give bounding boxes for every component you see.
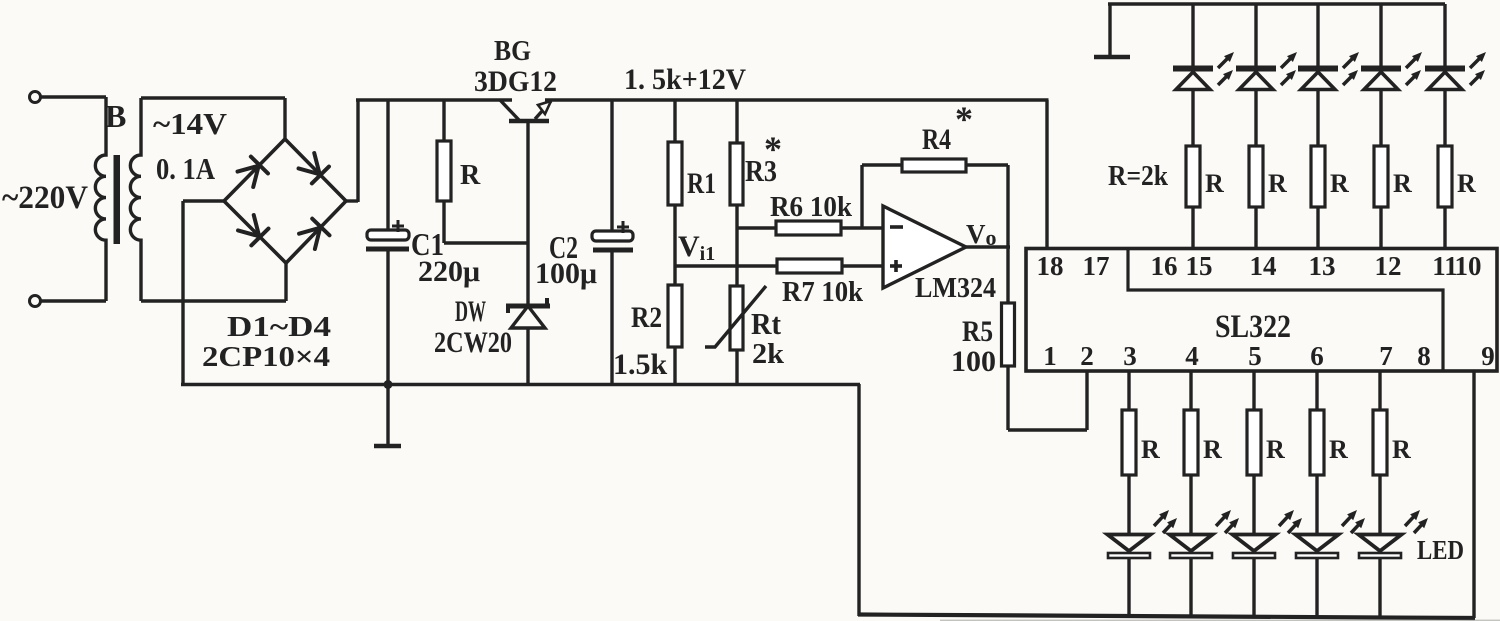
wire +12V rail to pin 18 bbox=[1045, 100, 1048, 247]
wire 220V bottom lead bbox=[41, 299, 106, 302]
wire secondary top to bridge bbox=[141, 98, 285, 141]
wire LED1 bottom column bbox=[1127, 371, 1130, 618]
wire R7 to non-inverting input bbox=[842, 264, 884, 267]
svg-text:1.5k: 1.5k bbox=[613, 348, 668, 381]
pin 17 label bbox=[1083, 251, 1110, 281]
label Vi1 bbox=[678, 230, 715, 265]
label ~14V bbox=[153, 106, 228, 141]
wire op-amp output bbox=[966, 245, 1010, 248]
svg-text:~220V: ~220V bbox=[2, 180, 88, 216]
svg-text:LM324: LM324 bbox=[915, 272, 996, 304]
resistor R (bottom 2) bbox=[1184, 410, 1198, 475]
wire bridge left corner to ground rail bbox=[183, 201, 224, 386]
svg-text:6: 6 bbox=[1310, 341, 1324, 371]
LED D5 (bottom bank) bbox=[1359, 535, 1402, 559]
LED D4 (top bank) bbox=[1361, 69, 1401, 90]
pin 15 label bbox=[1186, 251, 1213, 281]
wire top LED ground rail bbox=[1108, 2, 1445, 6]
svg-text:R2: R2 bbox=[631, 301, 662, 334]
svg-text:R6 10k: R6 10k bbox=[770, 192, 852, 223]
svg-text:3: 3 bbox=[1123, 341, 1137, 371]
wire LED5 top column bbox=[1443, 4, 1446, 248]
wire 220V top lead bbox=[41, 95, 106, 98]
pin 18 label bbox=[1037, 251, 1064, 281]
svg-text:D1~D4: D1~D4 bbox=[227, 311, 331, 343]
label R (bottom 4) bbox=[1329, 435, 1348, 464]
label 1.5k bbox=[613, 348, 668, 381]
label R3 bbox=[745, 129, 782, 188]
resistor R3 bbox=[730, 143, 743, 205]
label 100 bbox=[951, 345, 996, 378]
wire Vi1 node to R7 bbox=[675, 264, 777, 267]
wire LED4 bottom column bbox=[1315, 371, 1318, 618]
resistor R1 bbox=[668, 142, 682, 205]
svg-text:16: 16 bbox=[1151, 251, 1178, 281]
svg-text:R: R bbox=[1205, 169, 1224, 198]
pin 7 label bbox=[1379, 341, 1393, 371]
wire Vo to R5 bbox=[1006, 247, 1009, 303]
diode D2 (top-right) bbox=[298, 152, 329, 183]
transformer B core bbox=[114, 155, 121, 244]
label R (top 5) bbox=[1457, 169, 1476, 198]
terminal: 220V input bottom bbox=[30, 296, 41, 307]
svg-text:B: B bbox=[105, 98, 126, 134]
LED D4 arrows bbox=[1406, 52, 1422, 85]
wire LED2 bottom column bbox=[1189, 371, 1192, 618]
wire feedback right bbox=[966, 165, 1008, 247]
label 100u bbox=[535, 257, 597, 290]
wire LED4 top column bbox=[1379, 4, 1382, 248]
resistor R4 bbox=[902, 159, 966, 172]
LED D2 arrows bbox=[1281, 52, 1297, 85]
svg-text:SL322: SL322 bbox=[1215, 309, 1291, 345]
label Vo bbox=[966, 219, 997, 250]
LED D3 bottom arrows bbox=[1279, 510, 1302, 533]
LED D1 arrows bbox=[1218, 52, 1234, 85]
pin 14 label bbox=[1250, 251, 1277, 281]
wire feedback left bbox=[862, 165, 902, 229]
svg-text:LED: LED bbox=[1417, 535, 1464, 565]
label 2CW20 bbox=[434, 326, 512, 359]
wire ground rail bbox=[181, 383, 860, 387]
label 1.5k+12V bbox=[624, 63, 746, 96]
label DW bbox=[455, 295, 486, 328]
label B bbox=[105, 98, 126, 134]
pin 13 label bbox=[1309, 251, 1336, 281]
resistor R (top 5) bbox=[1438, 146, 1452, 207]
LED D5 bottom arrows bbox=[1405, 510, 1428, 533]
pin 1 label bbox=[1043, 341, 1057, 371]
label R (top 4) bbox=[1393, 169, 1412, 198]
label BG bbox=[494, 35, 531, 67]
transformer B primary winding bbox=[95, 97, 106, 301]
resistor R7 bbox=[777, 259, 842, 273]
wire C1 column bbox=[386, 100, 389, 386]
label Rt bbox=[751, 306, 782, 341]
transformer B secondary winding bbox=[130, 98, 141, 301]
svg-text:BG: BG bbox=[494, 35, 531, 67]
svg-text:Rt: Rt bbox=[751, 306, 782, 341]
svg-text:R=2k: R=2k bbox=[1108, 161, 1168, 192]
LED D1 (top bank) bbox=[1173, 69, 1213, 90]
svg-text:R: R bbox=[1266, 435, 1285, 464]
resistor R (top 1) bbox=[1186, 146, 1200, 207]
svg-text:2: 2 bbox=[1080, 341, 1094, 371]
diode D3 (bottom-left) bbox=[237, 214, 268, 245]
LED D5 (top bank) bbox=[1425, 69, 1465, 90]
label D1~D4 bbox=[227, 311, 331, 343]
svg-text:7: 7 bbox=[1379, 341, 1393, 371]
svg-text:*: * bbox=[955, 99, 973, 139]
svg-text:15: 15 bbox=[1186, 251, 1213, 281]
wire +12V output rail bbox=[545, 98, 1049, 102]
label LED bbox=[1417, 535, 1464, 565]
svg-text:R1: R1 bbox=[687, 167, 716, 200]
pin 3 label bbox=[1123, 341, 1137, 371]
svg-text:R: R bbox=[1141, 435, 1160, 464]
pin 12 label bbox=[1375, 251, 1402, 281]
bridge rectifier diamond D1-D4 bbox=[224, 139, 346, 263]
label R6 10k bbox=[770, 192, 852, 223]
LED D1 bottom arrows bbox=[1154, 510, 1177, 533]
capacitor C2 bbox=[592, 221, 633, 250]
svg-text:3DG12: 3DG12 bbox=[474, 65, 557, 98]
diode D4 (bottom-right) bbox=[298, 219, 329, 250]
svg-text:8: 8 bbox=[1417, 341, 1431, 371]
svg-text:2CW20: 2CW20 bbox=[434, 326, 512, 359]
label R2 bbox=[631, 301, 662, 334]
wire LED3 bottom column bbox=[1252, 371, 1255, 618]
wire LED5 bottom column bbox=[1378, 371, 1381, 618]
zener diode DW 2CW20 bbox=[506, 298, 550, 386]
wire R3 node to R6 bbox=[737, 226, 776, 229]
svg-text:DW: DW bbox=[455, 295, 486, 328]
resistor R6 bbox=[776, 221, 841, 235]
label LM324 bbox=[915, 272, 996, 304]
svg-text:12: 12 bbox=[1375, 251, 1402, 281]
wire + unregulated rail bbox=[356, 98, 512, 102]
svg-text:220μ: 220μ bbox=[418, 255, 480, 288]
label C2 bbox=[549, 229, 578, 265]
label 2CP10x4 bbox=[202, 341, 330, 373]
wire base column bbox=[526, 123, 529, 304]
label 3DG12 bbox=[474, 65, 557, 98]
pin 4 label bbox=[1185, 341, 1199, 371]
wire LED2 top column bbox=[1254, 4, 1257, 248]
svg-text:13: 13 bbox=[1309, 251, 1336, 281]
svg-text:100μ: 100μ bbox=[535, 257, 597, 290]
label ~220V bbox=[2, 180, 88, 216]
svg-text:R4: R4 bbox=[922, 123, 951, 156]
label R (top 3) bbox=[1330, 169, 1349, 198]
op-amp LM324 bbox=[883, 206, 966, 288]
label 0.1A bbox=[156, 151, 216, 186]
label R (bottom 2) bbox=[1203, 435, 1222, 464]
wire C2 column bbox=[610, 100, 613, 386]
LED D2 (top bank) bbox=[1236, 69, 1276, 90]
pin 11 label bbox=[1432, 251, 1458, 281]
resistor R (top 4) bbox=[1374, 146, 1388, 207]
label R (top 1) bbox=[1205, 169, 1224, 198]
ground symbol bbox=[374, 380, 401, 446]
svg-text:R: R bbox=[1330, 169, 1349, 198]
svg-text:R: R bbox=[1393, 169, 1412, 198]
label R (top 2) bbox=[1268, 169, 1287, 198]
svg-text:R7 10k: R7 10k bbox=[782, 277, 863, 308]
svg-text:100: 100 bbox=[951, 345, 996, 378]
label R7 10k bbox=[782, 277, 863, 308]
label R=2k bbox=[1108, 161, 1168, 192]
resistor R (bottom 5) bbox=[1373, 410, 1387, 475]
svg-text:18: 18 bbox=[1037, 251, 1064, 281]
label R (bottom 5) bbox=[1392, 435, 1411, 464]
label C1 bbox=[411, 226, 444, 262]
svg-text:*: * bbox=[764, 129, 782, 169]
wire R5 to pin 2 bbox=[1008, 366, 1087, 430]
svg-text:17: 17 bbox=[1083, 251, 1110, 281]
wire pin 9 to ground rail bbox=[1472, 371, 1475, 618]
diode D1 (top-left) bbox=[237, 157, 268, 188]
thermistor Rt bbox=[705, 286, 766, 350]
label 2k bbox=[752, 339, 784, 370]
wire R1-R2 column bbox=[673, 100, 676, 386]
svg-text:R: R bbox=[1203, 435, 1222, 464]
resistor R2 bbox=[668, 285, 682, 347]
resistor R (top 3) bbox=[1311, 146, 1325, 207]
resistor R (bottom 1) bbox=[1122, 410, 1136, 475]
wire LED1 top column bbox=[1191, 4, 1194, 248]
wire bridge right corner to +rail bbox=[346, 100, 358, 202]
LED D2 (bottom bank) bbox=[1170, 535, 1213, 559]
wire R6 to inverting input bbox=[841, 226, 884, 229]
svg-text:10: 10 bbox=[1455, 251, 1482, 281]
pin 5 label bbox=[1248, 341, 1262, 371]
wire R column bbox=[444, 100, 528, 243]
svg-text:2k: 2k bbox=[752, 339, 784, 370]
label R (bottom 1) bbox=[1141, 435, 1160, 464]
label R1 bbox=[687, 167, 716, 200]
label SL322 bbox=[1215, 309, 1291, 345]
wire secondary bottom to bridge bbox=[141, 261, 286, 301]
IC SL322 inner step bbox=[1128, 248, 1443, 371]
pin 16 label bbox=[1151, 251, 1178, 281]
LED D4 bottom arrows bbox=[1342, 510, 1365, 533]
LED D1 (bottom bank) bbox=[1108, 535, 1151, 559]
svg-text:9: 9 bbox=[1481, 341, 1495, 371]
pin 9 label bbox=[1481, 341, 1495, 371]
resistor R (top 2) bbox=[1249, 146, 1263, 207]
transistor BG 3DG12 bbox=[500, 100, 551, 121]
resistor R (bottom 4) bbox=[1310, 410, 1324, 475]
label R5 bbox=[962, 315, 993, 348]
LED D5 arrows bbox=[1470, 52, 1486, 85]
label R4 bbox=[922, 99, 973, 156]
pin 6 label bbox=[1310, 341, 1324, 371]
wire ground rail riser bbox=[857, 384, 860, 616]
svg-text:R: R bbox=[460, 160, 481, 191]
LED D4 (bottom bank) bbox=[1296, 535, 1339, 559]
terminal: 220V input top bbox=[30, 92, 41, 103]
svg-text:R: R bbox=[1268, 169, 1287, 198]
capacitor C1 bbox=[366, 220, 409, 249]
svg-text:14: 14 bbox=[1250, 251, 1277, 281]
ground symbol top bbox=[1094, 4, 1130, 57]
svg-text:R: R bbox=[1329, 435, 1348, 464]
resistor R (bottom 3) bbox=[1247, 410, 1261, 475]
svg-text:0. 1A: 0. 1A bbox=[156, 151, 216, 186]
label R (bottom 3) bbox=[1266, 435, 1285, 464]
pin 2 label bbox=[1080, 341, 1094, 371]
svg-text:4: 4 bbox=[1185, 341, 1199, 371]
svg-text:R: R bbox=[1392, 435, 1411, 464]
svg-text:1: 1 bbox=[1043, 341, 1057, 371]
wire bottom LED ground rail bbox=[858, 615, 1475, 619]
LED D3 (top bank) bbox=[1298, 69, 1338, 90]
pin 8 label bbox=[1417, 341, 1431, 371]
svg-text:2CP10×4: 2CP10×4 bbox=[202, 341, 330, 373]
wire LED3 top column bbox=[1316, 4, 1319, 248]
svg-text:~14V: ~14V bbox=[153, 106, 228, 141]
IC SL322 body bbox=[1026, 249, 1497, 372]
svg-text:R5: R5 bbox=[962, 315, 993, 348]
label R bbox=[460, 160, 481, 191]
pin 10 label bbox=[1455, 251, 1482, 281]
LED D2 bottom arrows bbox=[1216, 510, 1239, 533]
resistor R5 bbox=[1002, 303, 1015, 366]
svg-text:R: R bbox=[1457, 169, 1476, 198]
svg-text:1. 5k+12V: 1. 5k+12V bbox=[624, 63, 746, 96]
label 220u bbox=[418, 255, 480, 288]
wire R3-Rt column bbox=[735, 100, 738, 386]
svg-text:5: 5 bbox=[1248, 341, 1262, 371]
resistor R bbox=[437, 141, 451, 201]
LED D3 arrows bbox=[1343, 52, 1359, 85]
LED D3 (bottom bank) bbox=[1233, 535, 1276, 559]
